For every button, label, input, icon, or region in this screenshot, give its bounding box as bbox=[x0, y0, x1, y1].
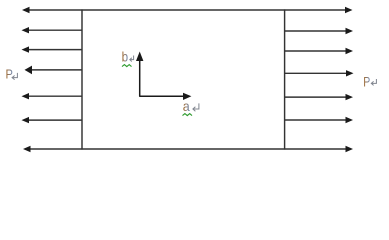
pilcrow after a bbox=[193, 103, 199, 111]
left load arrow 3 bbox=[25, 66, 83, 75]
left load arrow 1 bbox=[22, 27, 83, 33]
plate right edge bbox=[284, 9, 286, 149]
right load arrow 3 bbox=[285, 70, 354, 76]
squiggle under a bbox=[183, 114, 193, 116]
plate top edge (double-headed arrow shaft) bbox=[28, 9, 346, 11]
plate left edge bbox=[81, 9, 83, 149]
svg-text:P: P bbox=[6, 67, 13, 82]
top-left arrowhead bbox=[22, 7, 30, 13]
pilcrow after b bbox=[130, 56, 134, 62]
right load arrow 4 bbox=[285, 94, 353, 100]
bottom-left arrowhead bbox=[23, 146, 31, 152]
left load arrow 2 bbox=[22, 46, 83, 52]
left load arrow 5 bbox=[22, 117, 83, 123]
right load arrow 5 bbox=[285, 117, 353, 123]
svg-text:a: a bbox=[183, 98, 190, 114]
svg-text:P: P bbox=[363, 74, 370, 90]
squiggle under b bbox=[122, 65, 132, 67]
bottom-right arrowhead bbox=[346, 146, 354, 152]
right load arrow 1 bbox=[285, 28, 353, 34]
plate bottom edge (double-headed arrow shaft) bbox=[29, 148, 346, 150]
right load arrow 2 bbox=[285, 48, 353, 54]
pilcrow after right P bbox=[371, 79, 376, 85]
left load arrow 4 bbox=[22, 93, 83, 99]
pilcrow after left P bbox=[12, 73, 17, 80]
top-right arrowhead bbox=[345, 7, 353, 13]
axis a (horizontal) bbox=[139, 93, 191, 100]
svg-text:b: b bbox=[122, 49, 129, 65]
axis b (vertical) bbox=[136, 52, 143, 97]
